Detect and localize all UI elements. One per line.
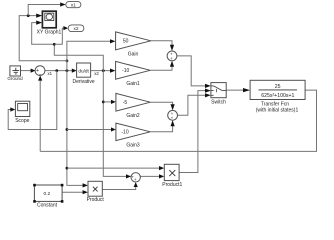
- node dot3 branch to gain3: [66, 128, 69, 131]
- svg-text:0.2: 0.2: [43, 191, 50, 197]
- wire x1 riser up to gain: [67, 41, 110, 70]
- wire x1 line sum1 to derivative: [45, 70, 72, 72]
- node dot on xy in1 line: [27, 14, 30, 17]
- svg-text:Derivative: Derivative: [72, 79, 94, 85]
- node dot4 branch to product1: [66, 167, 69, 170]
- sum2: [167, 51, 177, 61]
- wire sum3 to switch in3: [178, 95, 206, 115]
- svg-text:Constant: Constant: [37, 202, 58, 208]
- wire x2 to xy in2 and x2 outport: [32, 23, 104, 71]
- svg-text:-10: -10: [122, 68, 129, 74]
- svg-text:(with initial states)1: (with initial states)1: [256, 108, 299, 114]
- svg-text:x2: x2: [73, 26, 78, 32]
- sum1: [35, 66, 45, 79]
- sum4: [131, 173, 140, 183]
- outport x1: [66, 2, 81, 9]
- svg-text:−: −: [39, 72, 42, 78]
- wire branch to x1 outport: [28, 5, 60, 16]
- svg-text:Scope: Scope: [15, 118, 29, 124]
- svg-text:x2: x2: [94, 71, 99, 76]
- gain3 -10: [116, 123, 150, 148]
- wire x2 line derivative to gain1: [91, 70, 111, 72]
- derivative: [72, 63, 94, 85]
- wire ground to sum1: [21, 70, 31, 72]
- wire gain3 to sum3 bottom: [150, 126, 172, 132]
- svg-text:Gain2: Gain2: [126, 113, 140, 119]
- wire transfer fcn feedback: [40, 90, 316, 151]
- wire branch to x2 outport: [54, 28, 63, 44]
- wire constant to product in2: [62, 191, 83, 193]
- wire sum2 to switch in1: [177, 56, 205, 86]
- wire scope feed: [8, 71, 57, 130]
- wire x2 riser down: [103, 71, 126, 177]
- gain 50: [116, 32, 151, 58]
- sum3: [168, 110, 178, 120]
- xy graph1: [37, 11, 62, 35]
- wire to gain2: [103, 101, 111, 103]
- node dot on x1 xy-loop junction: [66, 59, 69, 62]
- svg-text:Ground: Ground: [7, 76, 23, 81]
- svg-text:Switch: Switch: [211, 100, 226, 106]
- node dot6 branch to gain2: [102, 101, 105, 104]
- svg-text:du/dt: du/dt: [78, 68, 89, 73]
- wire switch to transfer fcn: [226, 89, 243, 91]
- svg-text:XY Graph1: XY Graph1: [37, 30, 62, 36]
- outport x2: [68, 25, 84, 32]
- node dot branch x2 outport: [53, 43, 56, 46]
- ground: [7, 66, 23, 81]
- svg-text:x1: x1: [71, 2, 76, 8]
- transfer fcn: [250, 80, 305, 113]
- svg-text:Gain: Gain: [128, 52, 139, 58]
- svg-text:625s²+100s+1: 625s²+100s+1: [261, 93, 294, 99]
- svg-text:Transfer Fcn: Transfer Fcn: [261, 102, 289, 108]
- product: [87, 181, 105, 203]
- svg-text:Gain3: Gain3: [126, 142, 140, 148]
- svg-text:Gain1: Gain1: [126, 81, 140, 87]
- wire gain1 to sum2 bottom: [150, 67, 172, 71]
- svg-text:-5: -5: [123, 100, 128, 106]
- wire product1 to switch in2: [179, 91, 205, 173]
- switch: [211, 83, 226, 106]
- constant 0.2: [33, 184, 63, 209]
- svg-text:25: 25: [275, 84, 281, 90]
- gain1 -10: [116, 61, 151, 87]
- svg-text:-10: -10: [121, 130, 128, 136]
- wire to gain3: [67, 129, 111, 131]
- wire gain to sum2 top: [151, 41, 172, 45]
- wire gain2 to sum3 top: [150, 102, 172, 104]
- wire sum1 bottom feedback riser: [39, 80, 41, 151]
- wire sum4 to product1 in2: [140, 175, 159, 177]
- wire to product1 in1: [67, 167, 159, 169]
- wire product to sum4 bottom: [102, 187, 135, 190]
- gain2 -5: [116, 93, 150, 118]
- svg-text:Product1: Product1: [162, 182, 182, 188]
- node dot5 x2 branch: [102, 69, 105, 72]
- wire x1 to xy loop: [19, 16, 67, 61]
- svg-text:x1: x1: [48, 71, 53, 76]
- node dot1 x1 to scope riser: [55, 69, 58, 72]
- svg-text:Product: Product: [87, 197, 105, 203]
- scope: [15, 101, 30, 124]
- product1: [162, 164, 182, 188]
- wire x1 riser down: [67, 71, 83, 186]
- svg-text:50: 50: [123, 39, 129, 45]
- node dot2 x1 main branch: [66, 69, 69, 72]
